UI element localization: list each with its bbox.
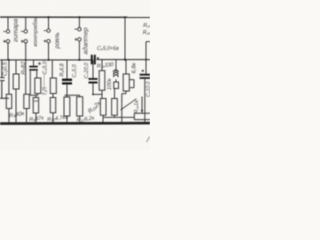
svg-text:R₅82: R₅82	[21, 61, 27, 75]
svg-text:C₇20,0: C₇20,0	[84, 63, 90, 79]
svg-text:C₆10,0: C₆10,0	[146, 81, 150, 97]
svg-text:C₃5,0: C₃5,0	[43, 61, 49, 75]
svg-text:R₁₆1к: R₁₆1к	[134, 100, 140, 114]
svg-text:адаптер: адаптер	[82, 27, 90, 54]
svg-text:C₄5,0: C₄5,0	[72, 64, 78, 77]
svg-text:рояль: рояль	[55, 32, 61, 49]
svg-text:C₅5,0×6в: C₅5,0×6в	[97, 46, 119, 52]
svg-text:контрабас: контрабас	[33, 16, 39, 46]
svg-text:Т₁П: Т₁П	[43, 87, 49, 96]
svg-text:6,8к: 6,8к	[131, 62, 137, 73]
svg-text:R₁₅: R₁₅	[143, 23, 150, 29]
svg-text:C₂0,5: C₂0,5	[3, 61, 9, 76]
svg-text:100к: 100к	[107, 78, 113, 90]
svg-text:R₁₆: R₁₆	[143, 30, 150, 36]
svg-text:R₆6,8: R₆6,8	[59, 63, 65, 76]
svg-text:гитара: гитара	[13, 18, 20, 42]
